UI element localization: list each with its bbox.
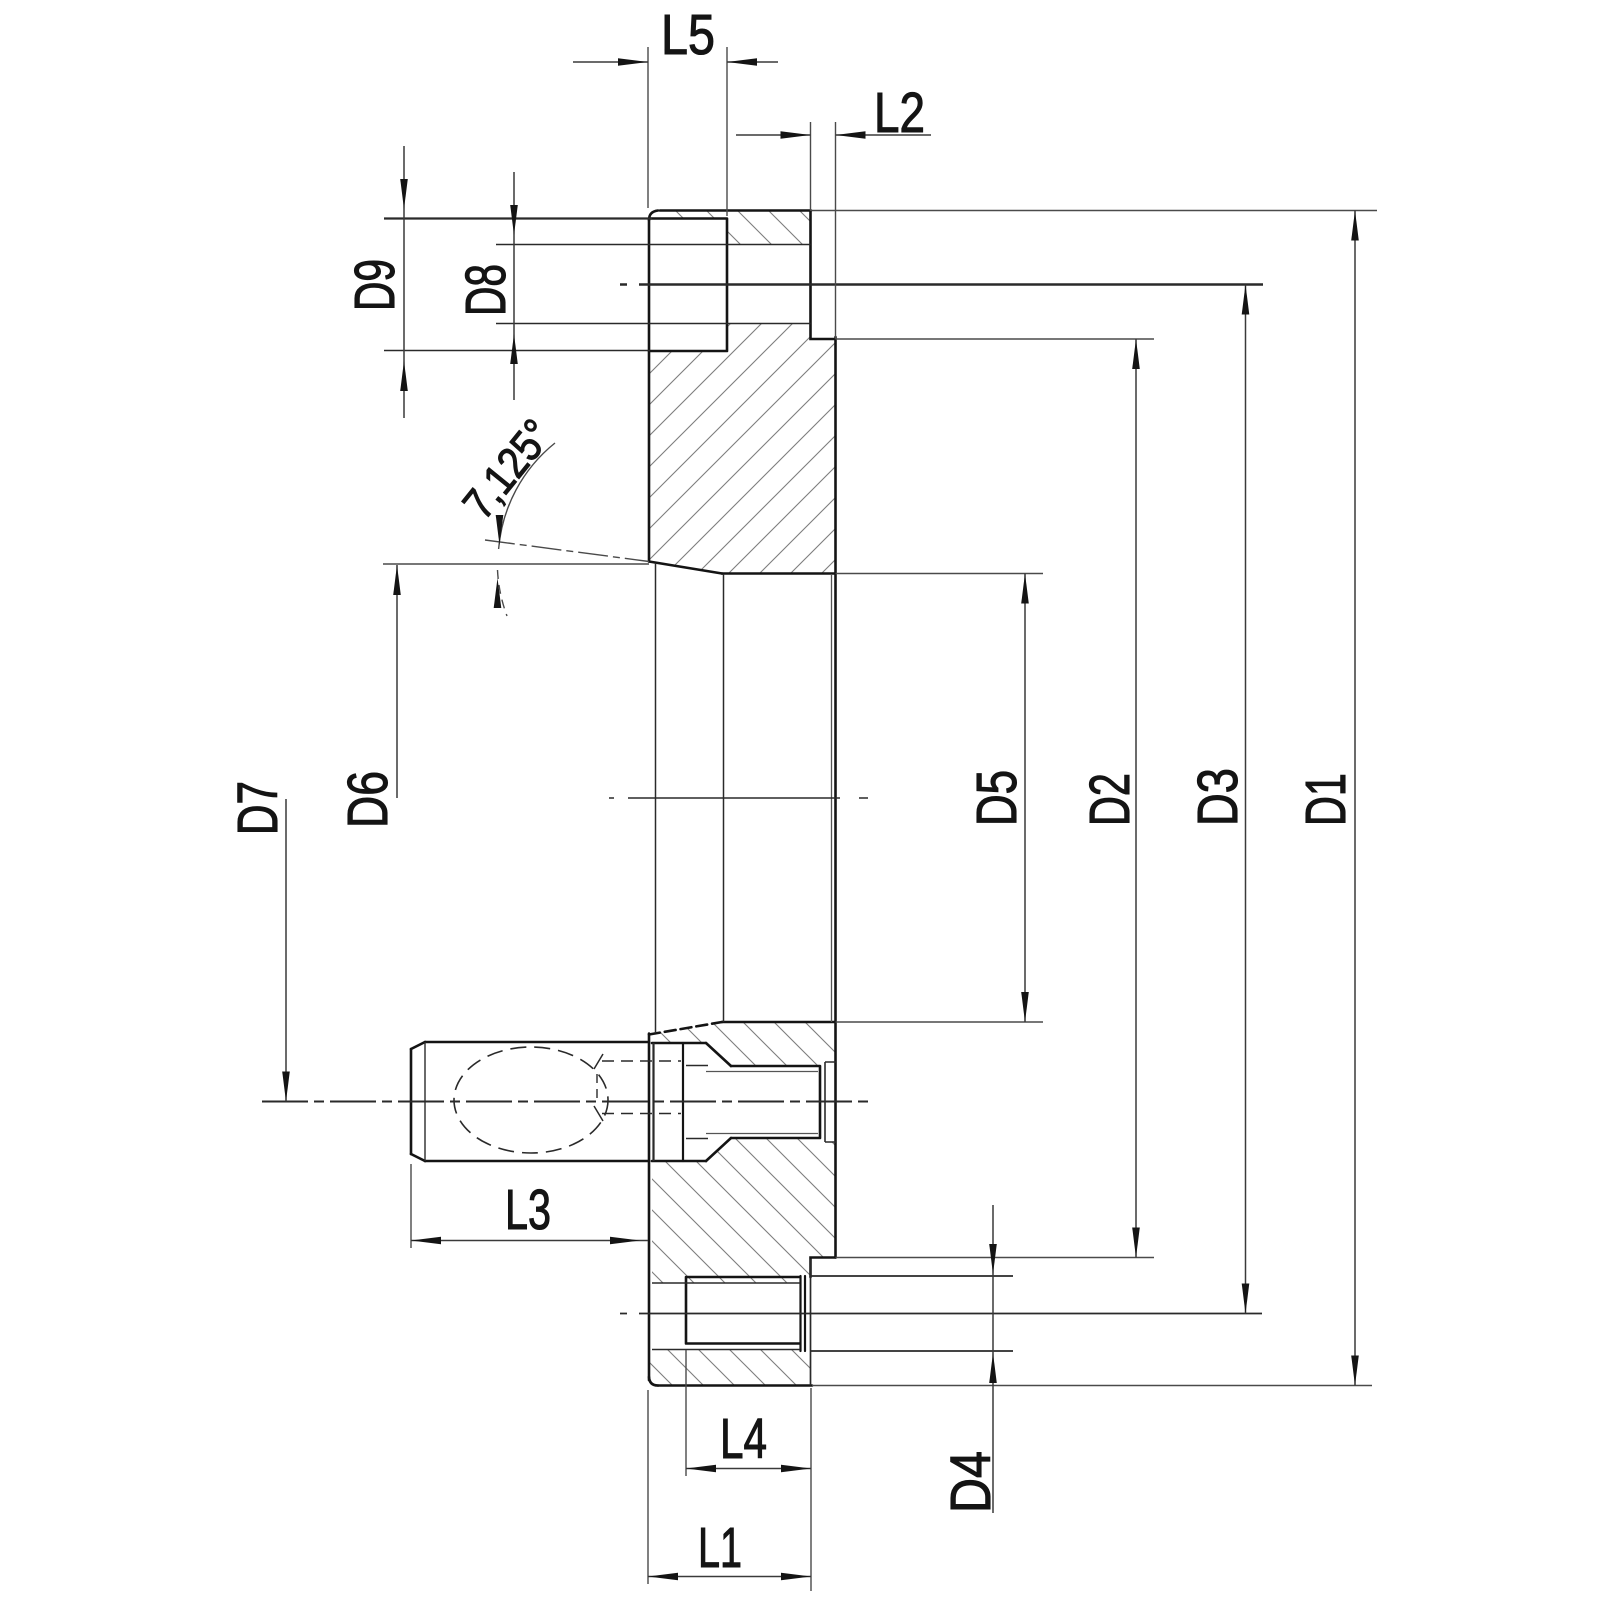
L5 dimension line — [573, 61, 778, 63]
taper bore lower edge dashed — [649, 1022, 722, 1035]
L3 arrows — [411, 1237, 441, 1245]
D6 dimension line — [396, 565, 398, 798]
D5 arrows — [1021, 574, 1029, 604]
svg-text:D5: D5 — [965, 770, 1029, 826]
L4 dimension line — [686, 1468, 811, 1470]
register face bottom edge — [722, 1021, 836, 1024]
counterbore hole D9 outline — [649, 219, 727, 352]
D4 counterbore lower extension — [811, 1350, 1014, 1352]
L4 left extension — [685, 1350, 687, 1476]
svg-text:L1: L1 — [698, 1516, 742, 1580]
D9 dimension line — [403, 146, 405, 418]
svg-text:D2: D2 — [1078, 773, 1142, 826]
register face top edge — [722, 572, 836, 575]
D5 bottom extension line — [836, 1021, 1044, 1023]
D3 arrows — [1242, 285, 1250, 315]
cam pocket entrance outline — [652, 1043, 706, 1161]
D4 counterbore upper extension — [811, 1275, 1014, 1277]
D2 arrows — [1132, 339, 1140, 369]
L1 dimension line — [648, 1576, 811, 1578]
D6 arrow — [393, 565, 401, 595]
hatch lower block between cam pocket and thread — [652, 1138, 836, 1283]
bolt hole axis lower D3 extension — [620, 1313, 1262, 1315]
taper bore front silhouette line — [655, 563, 657, 1033]
L4 arrows — [686, 1465, 716, 1473]
cam slot seen-through edges — [686, 1066, 708, 1139]
svg-text:D4: D4 — [939, 1451, 1003, 1513]
svg-text:D3: D3 — [1186, 768, 1250, 826]
L5 left extension — [647, 47, 649, 208]
flange outer right edge — [834, 337, 837, 1258]
D1 bottom extension line — [812, 1385, 1372, 1387]
D2 bottom extension line — [836, 1257, 1155, 1259]
flange front face upper — [648, 219, 651, 562]
hatch strip below thread — [649, 1350, 811, 1386]
L1 L4 right extension — [810, 1388, 812, 1591]
camlock stud end chamfers — [411, 1042, 425, 1161]
pocket opening inner edge at face — [652, 1043, 654, 1161]
flange body bottom-left corner radius — [649, 1377, 658, 1386]
L5 right extension — [726, 47, 728, 216]
L2 arrows — [781, 131, 811, 139]
register bore relief line — [831, 574, 833, 1022]
taper bore back silhouette line — [723, 574, 725, 1022]
cam slot relief groove — [824, 1062, 826, 1142]
D7 arrow — [282, 1072, 290, 1102]
D3 dimension line — [1245, 285, 1247, 1314]
angle arrow lower — [494, 578, 502, 608]
D1 dimension line — [1354, 211, 1356, 1386]
D1 top extension line — [811, 210, 1377, 212]
L3 left extension — [410, 1164, 412, 1248]
taper bore upper edge 7.125deg — [649, 562, 722, 574]
D5 dimension line — [1024, 574, 1026, 1023]
cam pocket chamfer transitions — [706, 1043, 731, 1161]
flange body top-left corner radius — [649, 211, 658, 221]
angle arc solid part — [499, 443, 555, 549]
svg-text:L2: L2 — [874, 81, 925, 145]
counterbore top edge D9 extension — [384, 217, 652, 219]
flange body bottom edge — [658, 1384, 812, 1387]
D1 arrows — [1351, 211, 1359, 241]
camlock stud axis D7 extension — [262, 1100, 873, 1102]
svg-text:D1: D1 — [1294, 773, 1358, 826]
svg-text:D6: D6 — [336, 771, 400, 828]
bolt hole axis upper D3 extension — [620, 283, 1263, 286]
flange body top edge — [660, 209, 811, 212]
part center axis — [609, 797, 868, 799]
L3 dimension line — [411, 1240, 648, 1242]
cam hole ellipse hidden in stud — [454, 1047, 608, 1153]
thread counterbore walls D4 — [801, 1276, 806, 1351]
svg-text:D8: D8 — [454, 264, 518, 316]
D8 bolt hole lower line — [496, 323, 811, 325]
D6 top extension / angle horizontal reference — [383, 563, 649, 565]
cam slot bore outline — [731, 1066, 820, 1138]
L2 right extension — [835, 122, 837, 339]
camlock stud body — [411, 1042, 649, 1161]
angle arrow upper — [496, 515, 504, 545]
stud inner hole bottom hidden — [596, 1074, 598, 1104]
counterbore bottom D9 extension — [384, 350, 650, 352]
register step upper — [811, 211, 836, 339]
cam slot thread crest lines — [706, 1072, 818, 1134]
D2 dimension line — [1135, 339, 1137, 1258]
hatch main upper block — [649, 324, 836, 575]
svg-text:D7: D7 — [226, 781, 290, 835]
hatch lower block above cam pocket — [649, 1022, 836, 1066]
svg-text:L4: L4 — [720, 1407, 767, 1471]
L5 arrows — [618, 58, 648, 66]
svg-text:L5: L5 — [661, 3, 715, 67]
stud inner hole hidden lines — [602, 1061, 681, 1114]
D7 dimension line — [285, 799, 287, 1102]
L1 left extension — [647, 1390, 649, 1584]
cam pocket inner edge — [682, 1043, 684, 1161]
svg-text:D9: D9 — [343, 259, 407, 311]
D9 arrows — [400, 179, 408, 209]
D8 arrows — [510, 205, 518, 235]
D2 top extension line — [836, 338, 1155, 340]
register step lower — [811, 1258, 836, 1278]
stud chamfer edge line — [424, 1042, 426, 1161]
flange front face lower — [648, 1034, 651, 1381]
hatch band top-right above D8 hole — [727, 211, 811, 245]
thread runout ticks — [594, 1054, 603, 1121]
D5 top extension line — [836, 573, 1044, 575]
angle slanted reference dash-dot — [485, 540, 649, 562]
L2 dimension line — [736, 134, 931, 136]
thread crest lines — [652, 1283, 800, 1350]
L1 arrows — [648, 1573, 678, 1581]
D8 bolt hole upper line — [496, 244, 811, 246]
L2 left extension — [810, 122, 812, 211]
back face edge between steps — [810, 1259, 812, 1386]
angle arc dashed part — [498, 570, 508, 616]
D4 dimension line — [992, 1205, 994, 1513]
cam slot relief stubs — [825, 1062, 836, 1142]
svg-text:L3: L3 — [505, 1178, 551, 1242]
D4 arrows — [989, 1244, 997, 1274]
hatch sliver above counterbore — [652, 211, 727, 219]
D8 dimension line — [513, 172, 515, 400]
thread root box M-thread — [686, 1277, 800, 1344]
